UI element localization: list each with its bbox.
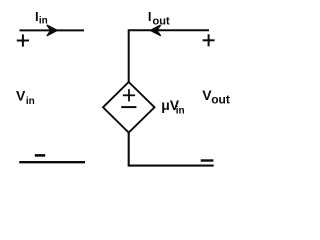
dependent source diamond (VCVS) [103, 82, 155, 133]
current arrow I_out (points left) [150, 25, 160, 35]
current arrow I_in (points right) [47, 25, 57, 35]
wire top-left input lead [20, 29, 85, 31]
svg-text:out: out [153, 15, 170, 27]
svg-text:V: V [16, 87, 26, 103]
terminal plus, input top [17, 34, 29, 46]
svg-text:in: in [39, 15, 48, 26]
wire top-right output lead with corner down to source [129, 30, 209, 82]
svg-text:in: in [176, 106, 185, 117]
source polarity plus [123, 89, 135, 101]
source polarity minus [121, 106, 136, 108]
wire bottom-left input lead [19, 161, 85, 163]
terminal plus, output top [203, 34, 215, 46]
svg-text:in: in [26, 96, 35, 107]
terminal minus, input bottom [35, 154, 45, 157]
svg-text:I: I [148, 9, 152, 24]
svg-text:out: out [211, 93, 230, 107]
terminal minus, output bottom [201, 159, 214, 161]
wire bottom-right output lead with corner from source [129, 132, 214, 166]
